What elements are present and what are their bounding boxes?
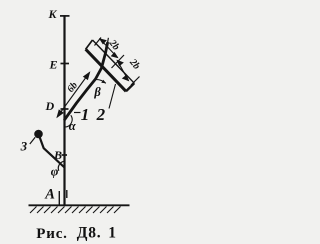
svg-text:α: α	[69, 119, 77, 133]
svg-text:Д8.: Д8.	[77, 224, 102, 241]
2b dimension segment 1	[100, 39, 118, 58]
svg-text:φ: φ	[51, 164, 59, 179]
tick at B	[62, 154, 68, 156]
ground line	[29, 204, 130, 206]
svg-text:1: 1	[108, 224, 116, 241]
ground hatching	[30, 207, 121, 214]
base bracket right line	[66, 190, 68, 198]
extension tick at plate right corner	[131, 77, 140, 86]
svg-text:K: K	[48, 7, 58, 21]
vertical rod AK	[63, 15, 65, 205]
ball of pendulum	[34, 130, 43, 139]
extension tick at plate left corner	[95, 38, 102, 46]
rod 1 pointed tip	[107, 38, 110, 43]
plate 2: top-right edge	[93, 40, 135, 83]
angle phi arc	[58, 161, 65, 171]
svg-text:Рис.: Рис.	[36, 226, 67, 242]
svg-text:2: 2	[96, 105, 106, 124]
base bracket left line	[58, 191, 60, 205]
tick at K	[60, 15, 70, 17]
svg-text:3: 3	[20, 139, 28, 154]
leader for label 2	[109, 84, 116, 109]
6b dimension line with arrows	[57, 73, 89, 118]
svg-text:β: β	[93, 85, 101, 99]
plate 2: left end cap	[86, 40, 93, 49]
tick at E	[61, 63, 70, 65]
leader for label 1	[74, 112, 81, 114]
plate 2: bottom-left edge (thick)	[86, 49, 126, 91]
svg-text:D: D	[45, 99, 55, 113]
angle alpha arc	[65, 115, 72, 127]
rod 1 (thick bar from junction below D up to plate)	[65, 43, 108, 120]
svg-text:E: E	[49, 58, 58, 72]
2b dimension segment 2	[117, 61, 128, 81]
svg-text:1: 1	[81, 105, 90, 124]
leader for label 3	[30, 137, 35, 144]
extension tick middle	[112, 55, 125, 68]
tick at D	[61, 108, 69, 110]
svg-text:A: A	[44, 187, 55, 203]
rod 3 (bent pendulum rod)	[39, 134, 65, 168]
plate 2: right end cap	[126, 83, 134, 91]
angle beta arc	[96, 80, 106, 84]
